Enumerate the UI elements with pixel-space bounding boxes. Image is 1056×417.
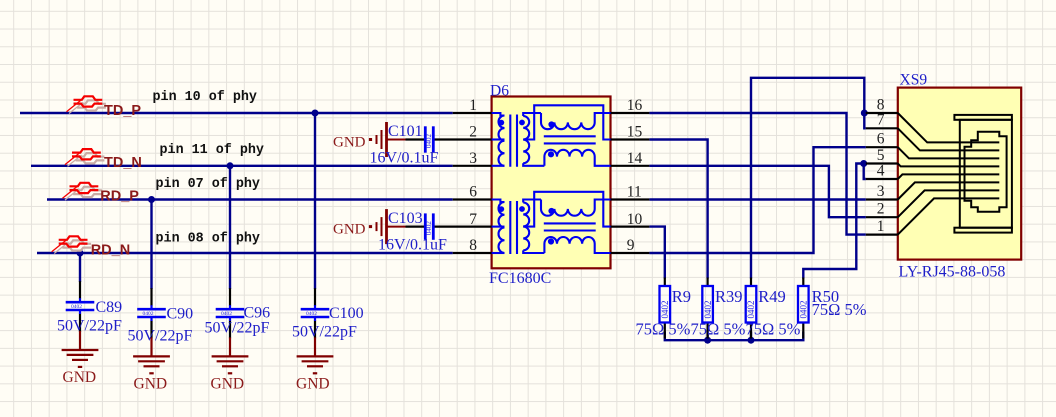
C103 ground symbol [371, 209, 406, 244]
resistor R39 [702, 286, 713, 323]
junction XS9 pin5 / pin4 [860, 160, 867, 167]
ground symbol of C100 [297, 337, 334, 373]
svg-text:0402: 0402 [221, 311, 232, 317]
svg-text:0402: 0402 [425, 221, 433, 236]
wire TD_N branch to C96 [229, 166, 231, 289]
svg-text:75Ω 5%: 75Ω 5% [812, 300, 867, 319]
wire net TD_N [31, 165, 453, 167]
ground symbol of C90 [133, 337, 170, 373]
wire pin16 to XS9 pin1 [649, 113, 865, 235]
svg-text:75Ω 5%: 75Ω 5% [636, 319, 691, 338]
wire R50 to XS9 pin5 [803, 164, 866, 279]
pin 1 of XS9 internal lead [898, 198, 1000, 234]
pin 1 of R9 [664, 278, 666, 287]
capacitor C89 [66, 298, 95, 314]
transformer D6 lower element windings [492, 192, 611, 254]
pin 1 of C100 [314, 288, 316, 306]
svg-text:7: 7 [877, 112, 885, 129]
svg-text:11: 11 [627, 184, 642, 201]
svg-text:R9: R9 [672, 287, 691, 306]
svg-text:C100: C100 [329, 305, 364, 322]
pin 1 of C89 [79, 281, 81, 299]
pin 6 of XS9 [866, 146, 898, 148]
pin 1 of R49 [750, 278, 752, 287]
pin 7 of D6 [434, 226, 492, 228]
svg-text:50V/22pF: 50V/22pF [205, 320, 270, 337]
wire RD_P branch to C90 [150, 200, 152, 290]
svg-text:pin 10 of phy: pin 10 of phy [153, 90, 257, 105]
resistor R50 [798, 286, 809, 323]
pin 7 of XS9 [866, 127, 898, 129]
pin 11 of D6 [611, 198, 650, 200]
svg-text:RD_P: RD_P [100, 189, 139, 205]
wire R39 bottom stub [706, 332, 708, 341]
svg-text:75Ω 5%: 75Ω 5% [746, 319, 801, 338]
svg-text:6: 6 [877, 131, 885, 148]
svg-text:14: 14 [627, 150, 643, 167]
svg-text:50V/22pF: 50V/22pF [57, 318, 122, 335]
capacitor C100 [301, 305, 330, 321]
pin 2 of XS9 [866, 216, 898, 218]
svg-text:pin 08 of phy: pin 08 of phy [156, 232, 260, 247]
port symbol TD_P [67, 96, 106, 113]
svg-text:10: 10 [627, 211, 643, 228]
ground symbol of C96 [212, 337, 249, 373]
pin 5 of XS9 internal lead [898, 164, 1000, 167]
capacitor C90 [137, 305, 166, 321]
pin 2 of R49 [750, 323, 752, 339]
svg-text:5: 5 [877, 147, 885, 164]
pin 3 of XS9 internal lead [898, 182, 1000, 199]
svg-text:50V/22pF: 50V/22pF [292, 324, 357, 341]
pin 3 of XS9 [866, 198, 898, 200]
pin 1 of D6 [453, 112, 492, 114]
capacitor C103 [425, 213, 433, 239]
pin 1 of R39 [706, 278, 708, 287]
pin 10 of D6 [611, 226, 650, 228]
svg-text:50V/22pF: 50V/22pF [128, 327, 193, 344]
wire net TD_P [20, 112, 453, 114]
svg-text:C103: C103 [388, 210, 423, 227]
wire R49 bottom stub [750, 332, 752, 341]
svg-text:0402: 0402 [71, 304, 82, 310]
svg-text:15: 15 [627, 124, 643, 141]
pin 3 of D6 [453, 165, 492, 167]
wire pin10 to R9 [649, 227, 664, 279]
transformer D6 body [492, 97, 611, 269]
pin 6 of XS9 internal lead [898, 147, 1000, 158]
pin 1 of R50 [802, 278, 804, 287]
wire RD_N branch to C89 [79, 253, 81, 282]
pin 16 of D6 [611, 112, 650, 114]
pin 14 of D6 [611, 165, 650, 167]
svg-text:C89: C89 [96, 299, 123, 316]
wire pin9 to XS9 pin6 [649, 147, 865, 253]
wire net RD_N [37, 252, 453, 254]
pin 15 of D6 [611, 138, 650, 140]
pin 2 of R9 [664, 323, 666, 339]
svg-text:FC1680C: FC1680C [489, 270, 551, 287]
svg-text:7: 7 [469, 211, 477, 228]
svg-text:R39: R39 [715, 287, 743, 306]
svg-text:75Ω 5%: 75Ω 5% [691, 319, 746, 338]
svg-text:pin 11 of phy: pin 11 of phy [160, 143, 264, 158]
port symbol RD_N [52, 236, 91, 253]
svg-text:4: 4 [877, 162, 885, 179]
pin 2 of C90 [150, 321, 152, 339]
svg-text:GND: GND [63, 369, 97, 386]
svg-text:0402: 0402 [660, 301, 670, 319]
svg-text:D6: D6 [490, 82, 509, 99]
connector XS9 body [898, 88, 1021, 260]
svg-text:2: 2 [877, 201, 885, 218]
junction tie / R39 [704, 337, 711, 344]
connector XS9 jack outline [954, 115, 1012, 233]
svg-text:2: 2 [469, 124, 477, 141]
pin 8 of XS9 internal lead [898, 113, 1000, 142]
pin 9 of D6 [611, 252, 650, 254]
svg-text:3: 3 [469, 150, 477, 167]
svg-text:0402: 0402 [746, 301, 756, 319]
svg-text:C101: C101 [388, 123, 423, 140]
wire pin15 to R39 [649, 140, 707, 279]
junction R49 net / XS9 pin8 [861, 110, 868, 117]
svg-text:0402: 0402 [143, 311, 154, 317]
svg-text:C90: C90 [167, 306, 194, 323]
transformer D6 upper element windings [492, 105, 611, 167]
pin 2 of C100 [314, 321, 316, 339]
pin 1 of C96 [229, 288, 231, 306]
junction RD_P / C90 [148, 196, 155, 203]
wire R49 to XS9 pin8/pin7 [751, 78, 866, 279]
pin 1 of C90 [150, 288, 152, 306]
wire pin11 to XS9 pin3 [649, 198, 865, 200]
svg-text:TD_P: TD_P [104, 103, 141, 119]
port symbol TD_N [65, 149, 104, 166]
svg-text:GND: GND [134, 376, 168, 393]
svg-text:0402: 0402 [425, 134, 433, 149]
junction tie / R49 [748, 337, 755, 344]
svg-text:pin 07 of phy: pin 07 of phy [156, 177, 260, 192]
svg-text:3: 3 [877, 183, 885, 200]
svg-text:6: 6 [469, 184, 477, 201]
pin 7 of XS9 internal lead [898, 128, 1000, 150]
pin 4 of XS9 internal lead [898, 174, 1000, 179]
junction RD_N / C89 [77, 250, 84, 257]
svg-text:0402: 0402 [703, 301, 713, 319]
pin 1 of C103 [406, 226, 426, 228]
junction TD_P / C100 [312, 110, 319, 117]
pin 5 of XS9 [866, 162, 898, 164]
pin 1 of C101 [406, 138, 426, 140]
connector XS9 jack plug shape [965, 132, 1007, 212]
svg-text:R49: R49 [758, 287, 786, 306]
svg-text:GND: GND [211, 376, 245, 393]
wire net RD_P [47, 198, 453, 200]
svg-text:1: 1 [877, 218, 885, 235]
svg-text:LY-RJ45-88-058: LY-RJ45-88-058 [899, 263, 1006, 280]
pin 2 of C89 [79, 314, 81, 333]
svg-text:8: 8 [469, 237, 477, 254]
pin 1 of XS9 [866, 234, 898, 236]
wire XS9 pin5 to pin4 [864, 164, 866, 180]
pin 4 of XS9 [866, 178, 898, 180]
svg-text:TD_N: TD_N [104, 155, 142, 171]
ground symbol of C89 [62, 331, 99, 367]
resistor R9 [660, 286, 671, 323]
pin 2 of C96 [229, 321, 231, 339]
capacitor C96 [216, 305, 245, 321]
svg-text:0402: 0402 [799, 301, 809, 319]
pin 2 of XS9 internal lead [898, 190, 1000, 217]
pin 2 of R50 [802, 323, 804, 339]
svg-text:XS9: XS9 [900, 72, 928, 89]
pin 2 of D6 [434, 138, 492, 140]
wire pin14 to XS9 pin2 [649, 166, 865, 217]
svg-text:16V/0.1uF: 16V/0.1uF [370, 150, 439, 167]
wire TD_P branch to C100 [314, 113, 316, 289]
capacitor C101 [425, 126, 433, 152]
junction TD_N / C96 [227, 162, 234, 169]
svg-text:GND: GND [296, 376, 330, 393]
svg-text:GND: GND [333, 221, 366, 237]
port symbol RD_P [63, 183, 102, 200]
pin 8 of XS9 [866, 112, 898, 114]
pin 8 of D6 [453, 252, 492, 254]
svg-text:0402: 0402 [306, 311, 317, 317]
resistor R49 [746, 286, 757, 323]
svg-text:RD_N: RD_N [91, 242, 130, 258]
wire resistor bottom tie [665, 332, 804, 341]
pin 6 of D6 [453, 198, 492, 200]
svg-text:9: 9 [627, 237, 635, 254]
svg-text:GND: GND [333, 134, 366, 150]
svg-text:1: 1 [469, 97, 477, 114]
svg-text:16V/0.1uF: 16V/0.1uF [378, 237, 447, 254]
pin 2 of R39 [706, 323, 708, 339]
C101 ground symbol [371, 122, 406, 157]
svg-text:16: 16 [627, 97, 643, 114]
